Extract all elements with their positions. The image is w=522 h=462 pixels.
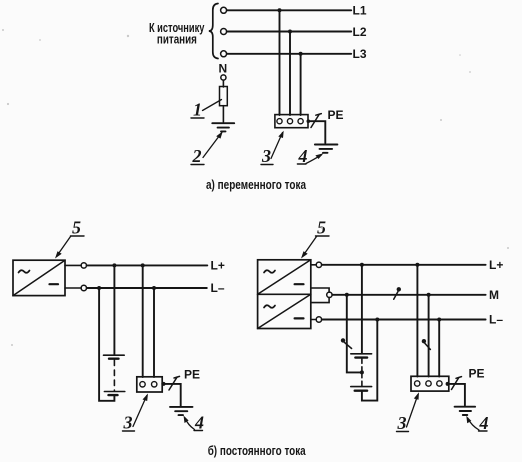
callout arrow 3 (left DC): [133, 394, 148, 427]
callout arrow 4 (left DC): [184, 416, 195, 430]
junction dot battery + (left): [112, 263, 116, 267]
underline of label 2: [191, 164, 204, 166]
label 4 (right DC): [479, 413, 489, 433]
svg-text:3: 3: [261, 146, 271, 166]
wire battery drop (right): [361, 265, 363, 354]
label 3 (AC): [261, 146, 271, 166]
junction dot L2: [288, 30, 292, 34]
wire M drop to block: [428, 295, 430, 377]
terminal block 3 (right DC): [411, 376, 449, 391]
wire PE branch (right DC): [448, 384, 465, 406]
label 5 (left): [72, 218, 81, 238]
underline of label 4 (left DC): [194, 430, 203, 432]
svg-text:PE: PE: [469, 367, 485, 381]
wire L3: [227, 53, 351, 55]
junction dot L3: [299, 52, 303, 56]
wire L- drop to block (left): [153, 288, 155, 377]
wire L1: [227, 9, 351, 11]
converter output circle L- (left): [65, 287, 81, 289]
wire M: [332, 294, 485, 296]
terminal block 3 circles: [277, 119, 303, 124]
converter 5 (right) midline: [258, 293, 311, 295]
wire L- (right): [322, 319, 486, 321]
svg-text:L2: L2: [353, 25, 367, 39]
converter 5 (left DC) body: [13, 260, 65, 295]
tap mark on M drop: [341, 338, 352, 348]
converter 5 (left) AC side tilde: [19, 270, 30, 273]
svg-text:N: N: [219, 62, 228, 76]
label 4 (left DC): [194, 413, 204, 433]
ground 4 (right DC): [455, 407, 476, 415]
battery dashed from midpoint (right): [361, 373, 363, 386]
converter output circle L+ (right): [311, 264, 316, 266]
terminal circle L2: [221, 29, 227, 35]
PE conductor slash (left DC): [169, 376, 180, 390]
battery bottom cell (left): [104, 392, 124, 396]
callout arrow 2: [203, 131, 223, 157]
underline of label 4 (right DC): [479, 430, 488, 432]
junction dot L- to block (left): [152, 286, 156, 290]
wire drop from L2: [289, 32, 291, 116]
tap mark on M line: [394, 287, 401, 299]
converter output circle M: [327, 292, 332, 297]
svg-text:2: 2: [192, 146, 202, 166]
svg-text:5: 5: [72, 218, 81, 238]
wire PE branch (left DC): [162, 384, 181, 406]
svg-text:PE: PE: [184, 368, 200, 382]
battery dashed to midpoint (right): [361, 359, 363, 372]
wire battery return (left): [99, 288, 114, 401]
junction dot battery + (right): [360, 263, 364, 267]
callout arrow 3 (AC): [271, 131, 284, 159]
converter 5 (right DC) body: [258, 260, 311, 329]
svg-text:L+: L+: [211, 259, 225, 273]
label 4 (AC): [298, 146, 308, 166]
wire L+ drop to block (left): [142, 265, 144, 377]
converter output circle L+ (left): [65, 264, 81, 266]
svg-text:L3: L3: [353, 47, 367, 61]
svg-text:3: 3: [123, 413, 133, 433]
terminal block 3 (left DC): [137, 377, 162, 392]
PE conductor slash (right DC): [452, 377, 462, 390]
scan speckles: [2, 29, 509, 346]
converter midpoint bracket (right): [311, 288, 329, 303]
callout line 1: [203, 100, 222, 111]
battery dashed cells (left): [113, 360, 115, 391]
converter 5 (right) bottom minus: [295, 317, 304, 319]
terminal block 3 circles (right DC): [415, 381, 443, 386]
converter 5 (right) top diagonal: [258, 260, 311, 295]
wire L+ (right): [322, 264, 486, 266]
callout arrow 5 (left): [55, 237, 71, 259]
wire L+ drop to block (right): [416, 265, 418, 377]
callout arrow 4 (right DC): [466, 416, 479, 430]
underline of label 5 (left): [71, 235, 85, 237]
svg-text:4: 4: [479, 413, 489, 433]
brace grouping supply terminals: [209, 4, 218, 59]
label 5 (right): [317, 218, 326, 238]
underline of label 4 (AC): [297, 163, 306, 165]
converter 5 (right) top tilde: [264, 270, 275, 273]
converter 5 (right) bottom diagonal: [258, 294, 311, 328]
svg-text:L–: L–: [489, 313, 503, 327]
converter output circle L- (right): [311, 319, 316, 321]
terminal block 3 (AC): [275, 115, 308, 128]
caption a) AC: [206, 177, 307, 192]
junction dot M to block: [427, 293, 431, 297]
wire L+ (left): [87, 264, 208, 266]
battery top cell (left): [104, 355, 125, 359]
wire drop from L1: [279, 10, 281, 115]
wire L- (left): [87, 287, 207, 289]
wire L2: [227, 31, 351, 33]
svg-text:L–: L–: [211, 281, 225, 295]
battery top cell (right): [351, 354, 372, 358]
wire battery drop (left): [113, 265, 115, 354]
tap mark on M block drop: [422, 339, 431, 350]
svg-text:а) переменного тока: а) переменного тока: [206, 177, 307, 192]
junction dot L+ to block (left): [141, 263, 145, 267]
junction dot battery - (left): [97, 286, 101, 290]
label 2: [192, 146, 202, 166]
callout arrow 3 (right DC): [407, 392, 420, 427]
converter 5 (right) bottom tilde: [264, 305, 275, 308]
underline of label 3 (AC): [261, 164, 273, 166]
fuse 1 body: [220, 87, 228, 106]
svg-text:питания: питания: [157, 33, 197, 47]
svg-text:L1: L1: [353, 4, 367, 18]
label 3 (right DC): [397, 413, 407, 433]
junction dot battery - (right): [375, 318, 379, 322]
terminal circle L3: [221, 51, 227, 57]
svg-text:3: 3: [397, 413, 407, 433]
callout arrow 4 (AC): [306, 153, 324, 163]
svg-text:4: 4: [194, 413, 204, 433]
underline of label 3 (left DC): [123, 430, 135, 432]
terminal circle N: [221, 75, 226, 80]
junction dot PE branch (left DC): [162, 382, 166, 386]
label "К источнику питания": [149, 21, 205, 47]
junction dot L+ to block (right): [415, 263, 419, 267]
label 3 (left DC): [123, 413, 133, 433]
wire drop from L3: [300, 54, 302, 115]
svg-text:PE: PE: [328, 108, 344, 122]
wire battery return (right): [362, 320, 377, 401]
converter 5 (left) DC side minus: [50, 283, 59, 285]
PE conductor slash: [311, 114, 321, 128]
wire N to fuse: [222, 80, 224, 87]
battery bottom cell (right): [351, 387, 372, 391]
callout arrow 5 (right): [301, 237, 317, 259]
junction dot battery midpoint: [360, 370, 364, 374]
svg-text:1: 1: [193, 100, 202, 120]
junction dot PE branch (right DC): [446, 382, 450, 386]
ground 4 (AC): [315, 145, 338, 153]
junction dot M tap: [345, 293, 349, 297]
junction dot L1: [278, 8, 282, 12]
converter 5 (right) top minus: [295, 283, 304, 285]
underline of label 1: [191, 117, 204, 119]
terminal circle L1: [221, 7, 227, 13]
underline of label 3 (right DC): [397, 431, 409, 433]
svg-text:б) постоянного тока: б) постоянного тока: [208, 443, 307, 458]
junction dot PE branch: [307, 119, 311, 123]
wire M tap drop: [347, 295, 362, 373]
ground 2 (neutral earthing): [212, 123, 234, 131]
label 1: [193, 100, 202, 120]
svg-text:M: M: [489, 288, 499, 302]
converter 5 (left) diagonal: [13, 260, 65, 295]
underline of label 5 (right): [316, 235, 330, 237]
wire PE branch: [308, 121, 325, 143]
ground 4 (left DC): [170, 407, 193, 415]
terminal block 3 circles (left DC): [140, 382, 157, 387]
junction dot L- to block (right): [437, 318, 441, 322]
caption b) DC: [208, 443, 307, 458]
wire L- drop to block (right): [438, 320, 440, 377]
svg-text:L+: L+: [489, 258, 503, 272]
wire through fuse to ground: [222, 106, 224, 122]
